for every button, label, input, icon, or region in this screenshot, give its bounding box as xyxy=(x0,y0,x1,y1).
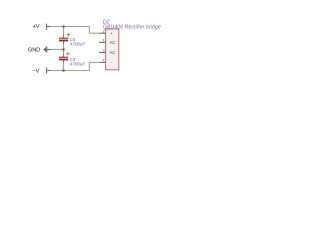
capacitor C5 xyxy=(59,27,86,50)
svg-text:4700uF: 4700uF xyxy=(70,61,87,66)
pin 1 stub xyxy=(99,41,106,43)
capacitor C4 xyxy=(59,50,86,71)
wire to pin 4 xyxy=(89,61,98,63)
junction dot at GND rail xyxy=(62,48,65,51)
wire GND lead (dark) xyxy=(47,49,51,51)
wire +V corner down xyxy=(88,26,90,33)
pin 3 stub xyxy=(99,51,106,53)
svg-text:GND: GND xyxy=(28,47,40,53)
node GND terminal arrow xyxy=(43,47,46,53)
junction dot at -V rail xyxy=(62,69,65,72)
svg-text:AC: AC xyxy=(110,40,116,45)
node -V terminal tick xyxy=(46,67,47,73)
wire to pin 2 xyxy=(89,32,98,34)
svg-text:AC: AC xyxy=(110,50,116,55)
rectifier bridge D2 body xyxy=(106,29,119,70)
pin 4 stub xyxy=(99,61,106,63)
wire GND horizontal xyxy=(51,49,64,51)
svg-text:4700uF: 4700uF xyxy=(70,41,87,46)
junction dot at +V rail xyxy=(62,25,65,28)
svg-text:+V: +V xyxy=(33,24,40,30)
node +V terminal tick xyxy=(46,24,47,30)
wire -V corner up xyxy=(88,62,90,71)
svg-text:−V: −V xyxy=(32,68,39,74)
pin 2 stub xyxy=(99,32,106,34)
svg-text:+: + xyxy=(110,31,113,36)
wire +V lead (dark) xyxy=(47,26,51,28)
wire +V rail horizontal xyxy=(51,26,90,28)
wire -V lead (dark) xyxy=(47,70,51,72)
wire -V rail horizontal xyxy=(51,70,90,72)
